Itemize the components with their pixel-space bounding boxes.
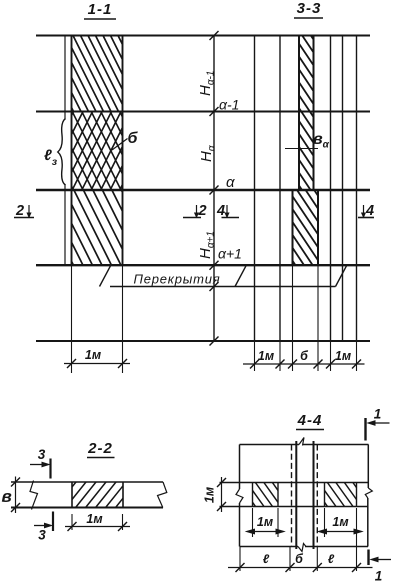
- svg-text:1м: 1м: [257, 515, 273, 529]
- slab slash middle: [235, 266, 246, 287]
- rect 4-4 right edge: [365, 445, 372, 547]
- storey line alpha-1: [36, 110, 370, 112]
- svg-text:3: 3: [38, 447, 46, 462]
- svg-text:1м: 1м: [85, 348, 101, 362]
- cut mark 3 top: [30, 447, 51, 479]
- break mark 2-2 right: [158, 482, 167, 508]
- label 1m left bottom: [85, 348, 101, 362]
- svg-text:3-3: 3-3: [297, 0, 322, 17]
- tick at alpha-1: [210, 107, 219, 116]
- svg-text:α: α: [226, 174, 235, 191]
- band 4-4 bottom line: [220, 506, 369, 508]
- hatch column 3-3 upper edges: [299, 36, 314, 191]
- floor line alpha+1: [36, 264, 370, 266]
- grid vline 3-3 d: [342, 36, 344, 342]
- rect 4-4 top edge: [240, 438, 369, 446]
- hatch block 1-1 edges: [72, 36, 123, 266]
- label 1m 2-2: [86, 512, 102, 526]
- svg-text:α+1: α+1: [218, 246, 242, 262]
- section mark 2 middle: [183, 203, 207, 219]
- section mark 4 middle: [216, 203, 239, 219]
- label v-alpha: [313, 131, 330, 151]
- dimension line 4-4 bottom: [228, 563, 373, 572]
- cut mark 1 top: [366, 407, 390, 441]
- label alpha-1: [219, 97, 239, 113]
- hatch block 1-1 upper storey: [72, 36, 123, 112]
- svg-text:Hα+1: Hα+1: [197, 231, 217, 259]
- hatch column 3-3 lower edges: [293, 190, 319, 265]
- svg-text:1: 1: [374, 407, 382, 422]
- title section 1-1: [84, 1, 116, 19]
- svg-text:2-2: 2-2: [87, 440, 113, 457]
- label H alpha-1: [197, 71, 217, 96]
- extension line 1-1 right: [122, 265, 124, 373]
- svg-text:б: б: [300, 349, 309, 363]
- svg-text:Перекрытия: Перекрытия: [133, 272, 220, 287]
- joint dashed line left: [291, 445, 293, 547]
- hatch block 2-2: [72, 482, 123, 508]
- storey line top: [36, 34, 370, 36]
- svg-text:ℓ: ℓ: [328, 552, 335, 566]
- extension line 3-3 x280: [279, 341, 281, 371]
- svg-text:б: б: [295, 552, 304, 566]
- hatch column 3-3 lower wide: [293, 190, 319, 265]
- cut mark 3 bottom: [34, 512, 53, 543]
- extension 4-4 bottom b: [289, 547, 291, 572]
- cut mark 1 bottom: [369, 550, 392, 583]
- label 1m right-right: [335, 349, 351, 363]
- svg-text:б: б: [128, 130, 139, 147]
- label alpha+1: [218, 246, 242, 262]
- hatch square 4-4 left: [253, 483, 279, 507]
- slab band bottom line: [110, 286, 336, 288]
- tick at slab bottom: [210, 282, 219, 291]
- extension under right square: [325, 508, 357, 571]
- svg-text:Hα: Hα: [198, 145, 218, 162]
- svg-text:в: в: [2, 487, 12, 506]
- svg-text:4: 4: [365, 203, 374, 219]
- tick at alpha: [210, 186, 219, 195]
- label b leader: [112, 139, 128, 151]
- dimension 1m under left square: [247, 529, 285, 534]
- label 1m right-left: [258, 349, 274, 363]
- joint solid line left: [295, 441, 297, 549]
- label H alpha: [198, 145, 218, 162]
- svg-text:1м: 1м: [86, 512, 102, 526]
- title section 3-3: [294, 0, 323, 18]
- hatch block 1-1 lower storey: [72, 190, 123, 265]
- extension under left square: [253, 508, 279, 537]
- rect 4-4 bottom edge: [240, 544, 369, 552]
- dimension line 3-3 bottom: [243, 360, 365, 369]
- joint dashed line right: [316, 445, 318, 547]
- svg-text:1м: 1м: [258, 349, 274, 363]
- extension 4-4 bottom a: [239, 547, 241, 572]
- dimension line 1m left: [64, 359, 130, 368]
- extension line 3-3 wide col left: [292, 265, 294, 371]
- svg-text:1м: 1м: [332, 515, 348, 529]
- label H alpha+1: [197, 231, 217, 259]
- hatch square 4-4 right: [325, 483, 357, 507]
- label alpha: [226, 174, 235, 191]
- dimension v 4-4: [217, 477, 226, 512]
- section mark 2 left: [14, 203, 34, 219]
- dimension line 2-2: [65, 522, 130, 531]
- extension line 3-3 x254.5: [254, 341, 256, 371]
- svg-text:4: 4: [216, 203, 225, 219]
- tick at alpha+1 floor: [210, 261, 219, 270]
- joint solid line right: [313, 441, 315, 549]
- brace l3: [58, 119, 66, 186]
- wall face line 1-1: [64, 36, 66, 266]
- slab slash right: [336, 266, 347, 287]
- label l3: [44, 147, 58, 168]
- break mark 2-2 left: [30, 481, 38, 510]
- grid vline 3-3 c: [330, 36, 332, 342]
- title section 2-2: [87, 440, 115, 458]
- svg-text:4-4: 4-4: [297, 412, 323, 429]
- svg-text:вα: вα: [313, 131, 330, 151]
- grid vline 3-3 b: [279, 36, 281, 342]
- band 2-2 top line: [11, 481, 163, 483]
- svg-text:2: 2: [198, 203, 207, 219]
- height dimension line: [213, 36, 215, 342]
- hatch block 1-1 middle storey crosshatch: [72, 112, 123, 191]
- grid vline 3-3 e: [356, 36, 358, 342]
- label l left: [263, 552, 270, 566]
- label 1m rotated: [203, 487, 217, 503]
- svg-text:3: 3: [38, 528, 46, 543]
- svg-text:Hα-1: Hα-1: [197, 71, 217, 96]
- svg-text:α-1: α-1: [219, 97, 239, 113]
- dimension v 2-2: [11, 477, 20, 514]
- tick at bottom grid: [210, 337, 219, 346]
- svg-text:2: 2: [15, 203, 24, 219]
- svg-text:1м: 1м: [335, 349, 351, 363]
- title section 4-4: [296, 412, 324, 430]
- label 1m under right square: [332, 515, 348, 529]
- hatch column 3-3 upper: [299, 36, 314, 191]
- extension line 3-3 wide col right: [317, 265, 319, 371]
- band 4-4 top line: [220, 482, 369, 484]
- label 1m under left square: [257, 515, 273, 529]
- extension line 3-3 x330.5: [330, 341, 332, 371]
- svg-text:ℓз: ℓз: [44, 147, 58, 168]
- label b: [128, 130, 139, 147]
- tick at top storey: [210, 31, 219, 40]
- grid vline 3-3 a: [254, 36, 256, 342]
- band 2-2 bottom line: [11, 507, 163, 509]
- slab slash left: [100, 266, 111, 287]
- label b 4-4: [295, 552, 304, 566]
- dimension 1m under right square: [319, 529, 363, 534]
- extension 2-2 dim: [72, 514, 123, 530]
- svg-text:1м: 1м: [203, 487, 217, 503]
- extension 4-4 bottom c: [316, 547, 318, 572]
- svg-text:1: 1: [375, 569, 383, 583]
- label b bottom: [300, 349, 309, 363]
- label v 2-2: [2, 487, 12, 506]
- rect 4-4 left edge: [236, 445, 243, 547]
- hatch block 2-2 edges: [72, 482, 123, 508]
- label v-alpha leader: [285, 145, 318, 153]
- label l right: [328, 552, 335, 566]
- extension line 1-1 left: [71, 265, 73, 373]
- label Perekrytija: [133, 272, 220, 287]
- svg-text:1-1: 1-1: [88, 1, 113, 18]
- storey line alpha: [36, 189, 370, 191]
- svg-text:ℓ: ℓ: [263, 552, 270, 566]
- extension line 3-3 x356.5: [356, 341, 358, 371]
- bottom grid line: [36, 340, 370, 342]
- section mark 4 right: [358, 203, 374, 219]
